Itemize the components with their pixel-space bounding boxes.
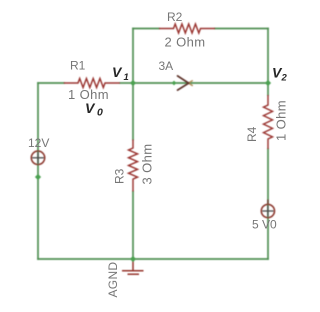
svg-text:1 Ohm: 1 Ohm: [274, 100, 289, 141]
wire bottom rail: [38, 258, 268, 260]
wire middle vertical bottom: [132, 192, 134, 260]
svg-text:5 V0: 5 V0: [252, 218, 277, 232]
svg-text:R3: R3: [113, 168, 127, 184]
wire top from node V1 rise to R2: [133, 28, 159, 30]
wire middle vertical top: [132, 29, 134, 140]
resistor R2: [159, 24, 215, 33]
resistor R3: [129, 140, 138, 192]
current source arrow 3A: [178, 76, 193, 90]
dependent source 5V0: [261, 200, 274, 218]
voltage source 12V: [31, 151, 44, 164]
resistor R1: [64, 79, 120, 88]
svg-text:3 Ohm: 3 Ohm: [140, 143, 155, 184]
wire top from R2 to right rail: [215, 28, 268, 30]
svg-text:R1: R1: [70, 59, 86, 73]
svg-text:2 Ohm: 2 Ohm: [165, 35, 206, 50]
wire R1 to V1: [120, 82, 133, 84]
node dot arrow tail: [172, 81, 177, 86]
svg-text:2: 2: [281, 73, 288, 84]
ground AGND: [122, 260, 144, 274]
svg-text:V: V: [112, 64, 123, 80]
wire middle horizontal V1 to V2: [133, 82, 268, 84]
svg-text:V: V: [85, 100, 96, 116]
svg-text:12V: 12V: [28, 136, 49, 150]
node V2 junction: [265, 80, 271, 86]
wire left vertical rail: [37, 83, 39, 259]
resistor R4: [264, 95, 273, 149]
svg-text:0: 0: [97, 107, 103, 119]
node junction below 12V: [35, 174, 41, 180]
wire right vertical top: [267, 29, 269, 96]
svg-text:R2: R2: [167, 10, 183, 24]
wire right vertical bottom: [267, 149, 269, 259]
svg-text:R4: R4: [245, 126, 259, 142]
node V1 junction: [130, 80, 136, 86]
svg-text:3A: 3A: [159, 59, 174, 73]
node junction at ground: [130, 256, 136, 262]
svg-text:AGND: AGND: [106, 262, 120, 298]
wire left horizontal to R1: [38, 82, 64, 84]
svg-text:1: 1: [124, 72, 129, 83]
